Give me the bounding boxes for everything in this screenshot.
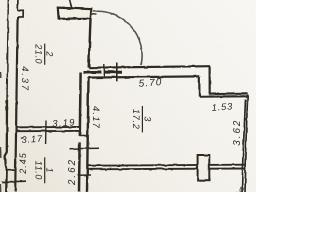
inner left wall jog notch (18, 11, 24, 17)
tick across center wall lower (78, 174, 92, 176)
svg-text:,: , (236, 188, 238, 192)
tick on 3.19 wall (45, 121, 47, 145)
inner left wall line top (17, 0, 19, 11)
right wall below bottom inner (241, 170, 244, 192)
right upper inner vertical (198, 76, 200, 96)
left edge smudge b (0, 147, 2, 158)
svg-text:3.19: 3.19 (52, 117, 76, 130)
room 2 label fraction 2/21.0 (34, 43, 55, 65)
svg-text:21.0: 21.0 (34, 43, 44, 64)
door gap cap (79, 134, 87, 136)
3.19 wall top line (16, 126, 80, 128)
inner left wall line lower (15, 17, 17, 192)
svg-text:1.53: 1.53 (211, 100, 233, 112)
svg-text:4.17: 4.17 (91, 106, 102, 129)
top bar (wall pier) (58, 8, 92, 19)
room 1 label fraction 1/11.0 (34, 157, 55, 183)
door swing arc (93, 11, 142, 65)
outer left wall line lower (5, 100, 7, 192)
svg-text:2.45: 2.45 (18, 152, 28, 175)
dim 2.45 left (18, 152, 28, 175)
svg-text:0: 0 (239, 186, 244, 192)
vertical wall from bar down (89, 19, 91, 68)
mini tick (103, 64, 105, 78)
band top line (5.70 wall) (89, 66, 210, 68)
3.19 wall bottom line (16, 130, 80, 132)
left wall rung upper (6, 169, 17, 171)
room 3 label fraction 3/17.2 (131, 106, 152, 132)
stray dash before 3.17 (21, 137, 23, 139)
door hinge stub (92, 13, 97, 15)
dim 3.62 right (232, 119, 243, 146)
bottom wall top line (87, 165, 246, 166)
1.53 wall bottom (199, 95, 247, 97)
bottom wall bottom line (87, 168, 246, 171)
svg-text:3: 3 (142, 116, 152, 122)
left edge smudge a (0, 72, 2, 78)
left wall rung lower (2, 180, 26, 183)
door/window rect symbol (198, 155, 210, 181)
svg-text:4.37: 4.37 (19, 66, 30, 92)
dim 4.37 left (19, 66, 30, 92)
right wall outer line (245, 95, 248, 171)
paper background (0, 0, 256, 192)
band bottom line (88, 76, 199, 77)
outer left wall line upper (7, 0, 8, 100)
tick across center wall upper (70, 147, 100, 150)
big tick (116, 63, 118, 82)
band mid line seg B (105, 71, 122, 74)
center wall left line upper (79, 73, 82, 136)
center wall left line lower (78, 142, 81, 192)
1.53 wall top (209, 92, 248, 94)
svg-text:3.17: 3.17 (21, 134, 43, 145)
1.53 wall mid shading (209, 94, 248, 96)
svg-text:2: 2 (45, 50, 55, 57)
paper grain (0, 0, 256, 192)
svg-text:1: 1 (45, 167, 55, 173)
right upper outer vertical (209, 66, 211, 93)
svg-text:3.62: 3.62 (232, 119, 243, 146)
dim 2.62 center lower (67, 158, 78, 186)
svg-text:11.0: 11.0 (34, 161, 44, 180)
left edge smudge c (0, 184, 2, 192)
dim 4.17 center (91, 106, 102, 129)
center wall right line (87, 78, 89, 192)
right wall below bottom outer (244, 170, 247, 192)
outer line right bump (6, 106, 7, 111)
band mid line seg A (84, 71, 102, 74)
svg-text:2.62: 2.62 (67, 158, 78, 186)
svg-text:5.70: 5.70 (138, 77, 163, 90)
right wall inner line (242, 100, 245, 171)
diagonal stub at top (70, 0, 72, 9)
svg-text:17.2: 17.2 (131, 109, 141, 130)
